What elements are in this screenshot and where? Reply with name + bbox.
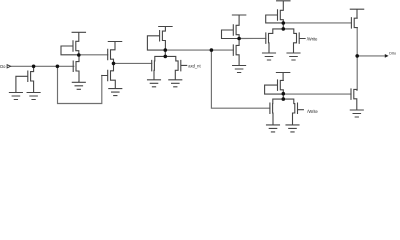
svg-text:D0o: D0o xyxy=(389,52,396,56)
svg-text:axd_nt: axd_nt xyxy=(188,64,201,69)
svg-text:/Write: /Write xyxy=(307,109,318,114)
svg-text:Do: Do xyxy=(0,64,6,69)
svg-text:/Write: /Write xyxy=(307,37,318,42)
